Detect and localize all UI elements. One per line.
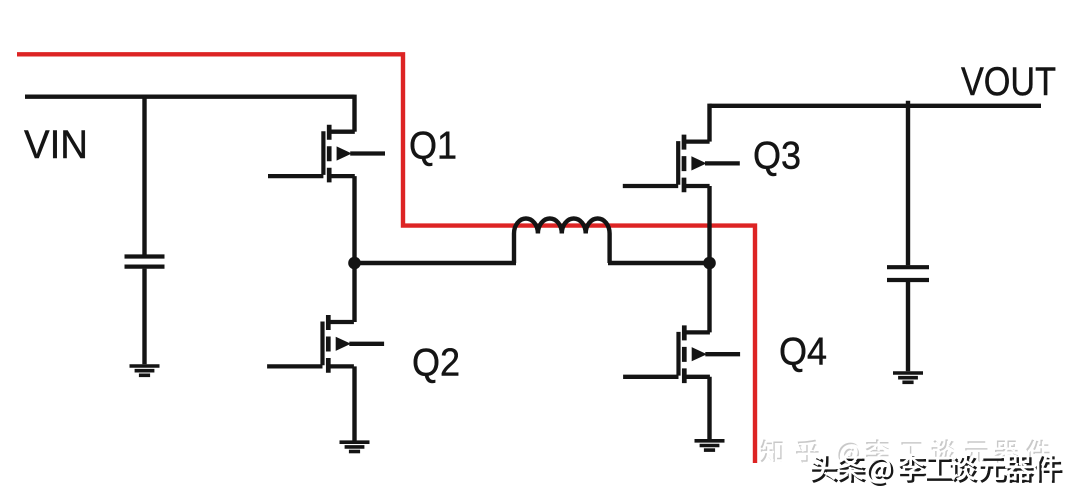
capacitor COUT (output capacitor)	[887, 267, 929, 280]
wire: input capacitor bottom lead	[142, 269, 146, 365]
node SW1 junction dot	[348, 257, 361, 270]
wire: output capacitor bottom lead	[906, 282, 910, 371]
wire: output capacitor top lead (with junction tick)	[906, 101, 910, 265]
transistor Q1 (buck high-side NMOS)	[268, 125, 385, 183]
wire: Q2 source to ground	[352, 366, 356, 440]
wire: Q3 source / Q4 drain vertical (right switch node leg)	[707, 186, 711, 332]
ground (input capacitor)	[130, 366, 160, 375]
inductor L1	[514, 218, 610, 263]
ground (Q2 source)	[340, 442, 370, 451]
svg-text:VOUT: VOUT	[961, 60, 1056, 104]
wire: Q1 source / Q2 drain vertical (left switch node leg)	[352, 176, 356, 322]
transistor Q2 (buck low-side NMOS)	[267, 315, 384, 373]
svg-text:Q2: Q2	[412, 342, 460, 385]
transistor Q3 (boost rectifier NMOS)	[623, 135, 740, 193]
wire: Q4 source to ground	[707, 377, 711, 439]
node SW2 junction dot	[703, 257, 716, 270]
capacitor CIN (input capacitor)	[125, 257, 165, 267]
svg-text:Q3: Q3	[753, 135, 801, 178]
wire: VOUT top rail	[710, 104, 1042, 108]
wire: inductor to switch node SW2	[608, 261, 710, 265]
svg-text:Q1: Q1	[409, 125, 457, 168]
red current path (VIN rail through inductor to ground return)	[17, 54, 755, 463]
wire: VIN top rail	[25, 94, 355, 98]
wire: Q3 drain to VOUT rail	[707, 104, 711, 142]
wire: switch node SW1 to inductor	[355, 261, 517, 265]
svg-text:VIN: VIN	[24, 123, 88, 167]
wire: Q1 drain to VIN rail	[352, 95, 356, 132]
watermark (dark embossed): 头条 @李工谈元器件	[810, 454, 1063, 486]
svg-text:Q4: Q4	[779, 331, 827, 374]
watermark (light embossed): 知乎 @李工谈元器件	[760, 439, 1050, 466]
transistor Q4 (boost low-side NMOS)	[623, 325, 740, 383]
ground (output capacitor)	[893, 373, 923, 382]
wire: input capacitor top lead	[142, 96, 146, 255]
ground (Q4 source)	[695, 441, 725, 450]
